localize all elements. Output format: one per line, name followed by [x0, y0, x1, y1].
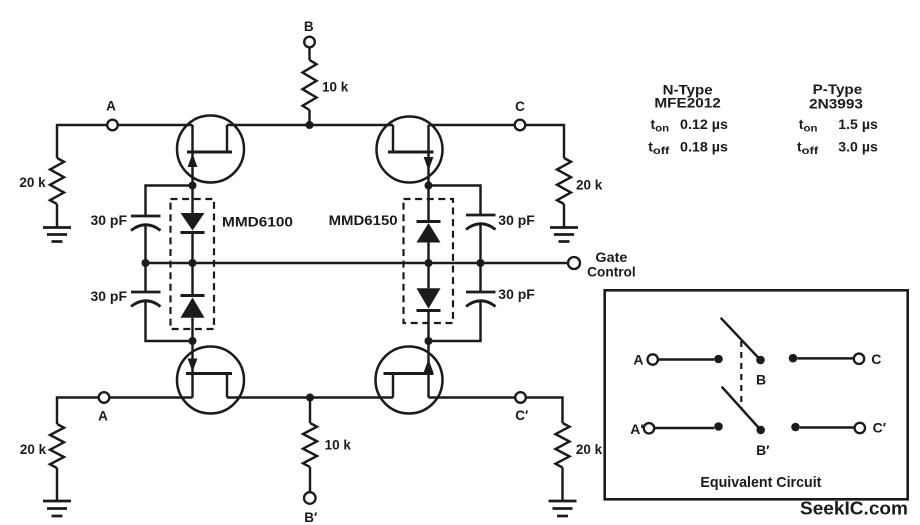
- dashed mechanical link: [740, 341, 742, 409]
- svg-text:30 pF: 30 pF: [91, 213, 128, 228]
- wire B' node to R5: [309, 398, 311, 424]
- wire gate line to C2: [144, 263, 146, 292]
- wire C1 to gate control line: [144, 225, 146, 263]
- ground bottom left: [43, 501, 71, 516]
- contact dot right row2: [791, 423, 800, 432]
- diode D2 (MMD6100 bottom, cathode up): [181, 263, 205, 341]
- resistor R2 10k top: [303, 60, 317, 110]
- svg-text:Control: Control: [587, 265, 636, 280]
- svg-text:20 k: 20 k: [20, 442, 47, 457]
- wire C2 to Q3 gate node: [146, 301, 193, 341]
- svg-text:A: A: [633, 352, 643, 368]
- svg-text:2N3993: 2N3993: [809, 96, 863, 112]
- wire gate control line: [146, 262, 568, 264]
- wire bottom rail left corner segment: [57, 398, 99, 425]
- contact pivot dot B: [756, 356, 765, 365]
- node gate Q2 junction dot: [425, 182, 433, 190]
- transistor Q1 top-left: [177, 116, 244, 186]
- svg-text:20 k: 20 k: [19, 175, 46, 190]
- svg-text:toff: toff: [648, 139, 670, 158]
- svg-text:C′: C′: [873, 420, 887, 436]
- terminal B': [304, 492, 316, 504]
- wire contact to C' equiv: [800, 426, 855, 428]
- svg-text:C: C: [515, 99, 525, 114]
- transistor Q3 bottom-left: [177, 341, 244, 414]
- wire C to right corner down to R3: [525, 125, 564, 158]
- resistor R4 20k bottom left: [50, 424, 64, 468]
- wire A equiv to contact: [658, 358, 714, 360]
- contact pivot dot B': [756, 426, 765, 435]
- terminal B: [304, 37, 315, 48]
- terminal A equiv: [648, 354, 658, 364]
- resistor R6 20k bottom right: [556, 423, 570, 468]
- wire gate line to C4: [479, 263, 481, 292]
- svg-text:30 pF: 30 pF: [498, 213, 535, 228]
- node gate Q1 junction dot: [189, 182, 197, 190]
- wire Q1 gate node into diode D1: [191, 186, 193, 214]
- capacitor C2 30pF left bottom: [131, 292, 161, 307]
- terminal A bottom: [99, 392, 110, 403]
- terminal C equiv: [854, 354, 864, 364]
- contact dot left row2: [714, 422, 723, 431]
- terminal Gate Control: [568, 257, 580, 269]
- wire R4 to ground: [56, 468, 58, 500]
- wire contact to C equiv: [797, 357, 854, 359]
- wire Q2 gate node to C3: [429, 186, 481, 216]
- node C1 gate-line junction dot: [142, 259, 150, 267]
- node MMD6100 center junction dot: [189, 259, 197, 267]
- wire Q1 source to Q2 drain through node B junction: [227, 124, 393, 126]
- svg-text:10 k: 10 k: [325, 438, 352, 453]
- svg-text:Gate: Gate: [595, 250, 628, 265]
- svg-text:ton: ton: [799, 116, 818, 135]
- terminal C' equiv: [855, 423, 865, 433]
- svg-text:3.0 µs: 3.0 µs: [838, 139, 878, 155]
- transistor Q2 top-right: [377, 117, 443, 186]
- dashed box MMD6100: [171, 199, 215, 329]
- node B' junction dot: [306, 394, 314, 402]
- wire Q2 gate node into diode D3: [427, 186, 429, 222]
- contact dot left row1: [714, 355, 723, 364]
- terminal C': [515, 392, 526, 403]
- wire A' equiv to contact: [654, 427, 714, 429]
- wire A bottom to Q3: [109, 396, 192, 398]
- node Q3 gate junction dot: [189, 337, 197, 345]
- svg-text:A: A: [106, 99, 116, 114]
- svg-text:A′: A′: [630, 421, 644, 437]
- wire C3 to gate control line: [479, 224, 481, 263]
- capacitor C4 30pF right bottom: [466, 292, 496, 307]
- diode D1 (MMD6100 top, cathode down): [181, 213, 205, 263]
- wire C' to right corner down to R6: [526, 398, 563, 424]
- wire R3 to ground: [563, 204, 565, 227]
- wire A to Q1 drain: [118, 124, 193, 126]
- wire Q1 gate node to C1: [146, 186, 193, 217]
- ground left top: [43, 228, 71, 242]
- dashed box MMD6150: [404, 199, 454, 323]
- svg-text:30 pF: 30 pF: [498, 287, 535, 302]
- wire top rail left segment with corner to R1: [57, 125, 107, 158]
- wire Q3 to Q4 through node B' junction: [227, 396, 393, 398]
- svg-text:ton: ton: [651, 116, 670, 135]
- ground right top: [550, 228, 578, 242]
- resistor R3 20k right top: [557, 158, 571, 204]
- svg-text:MFE2012: MFE2012: [654, 95, 721, 111]
- svg-text:10 k: 10 k: [322, 80, 349, 95]
- svg-text:20 k: 20 k: [576, 178, 603, 193]
- wire C4 to Q4 gate node: [429, 301, 481, 341]
- switch arm B': [722, 387, 761, 430]
- node MMD6150 center junction dot: [425, 259, 433, 267]
- svg-text:MMD6100: MMD6100: [222, 214, 293, 230]
- transistor Q4 bottom-right: [376, 341, 443, 414]
- wire R6 to ground: [561, 468, 563, 501]
- wire R5 to terminal B': [309, 467, 311, 492]
- svg-text:C: C: [871, 351, 881, 367]
- svg-text:toff: toff: [797, 139, 819, 158]
- svg-text:1.5 µs: 1.5 µs: [838, 116, 878, 132]
- svg-text:0.12 µs: 0.12 µs: [680, 116, 728, 132]
- resistor R1 20k left top: [50, 158, 64, 204]
- svg-text:B′: B′: [304, 510, 317, 525]
- svg-text:B′: B′: [756, 442, 770, 458]
- equivalent circuit box: [605, 290, 908, 499]
- terminal A' equiv: [644, 423, 654, 433]
- switch arm B: [721, 318, 761, 360]
- capacitor C3 30pF right top: [466, 215, 496, 230]
- svg-text:B: B: [756, 372, 766, 388]
- svg-text:C′: C′: [515, 408, 528, 423]
- wire Q4 to terminal C': [429, 396, 516, 398]
- terminal C: [515, 120, 526, 131]
- svg-text:B: B: [304, 19, 314, 34]
- svg-text:30 pF: 30 pF: [91, 289, 128, 304]
- svg-text:20 k: 20 k: [576, 442, 603, 457]
- resistor R5 10k bottom: [303, 423, 317, 467]
- node Q4 gate junction dot: [425, 337, 433, 345]
- wire Q2 source to terminal C: [429, 124, 515, 126]
- svg-text:A: A: [98, 409, 108, 424]
- svg-text:MMD6150: MMD6150: [329, 212, 398, 228]
- diode D4 (MMD6150 bottom, cathode down): [417, 263, 441, 341]
- svg-text:SeekIC.com: SeekIC.com: [800, 498, 908, 519]
- capacitor C1 30pF left top: [131, 216, 161, 231]
- diode D3 (MMD6150 top, cathode up): [417, 222, 441, 264]
- svg-text:0.18 µs: 0.18 µs: [680, 139, 728, 155]
- terminal A top: [107, 120, 118, 131]
- ground bottom right: [549, 501, 577, 516]
- wire B terminal to R2: [308, 47, 310, 60]
- svg-text:Equivalent Circuit: Equivalent Circuit: [700, 474, 821, 491]
- node C3 gate-line junction dot: [477, 259, 485, 267]
- wire R1 to ground: [56, 204, 58, 227]
- wire R2 to node B junction: [308, 110, 310, 125]
- contact dot right row1: [789, 354, 798, 363]
- node B junction dot: [306, 121, 314, 129]
